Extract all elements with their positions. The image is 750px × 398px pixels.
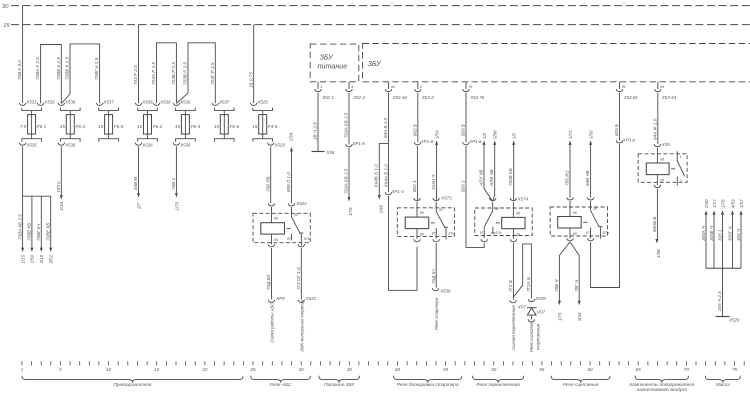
svg-text:40: 40 bbox=[395, 367, 401, 372]
svg-text:1/15: 1/15 bbox=[20, 254, 25, 263]
fuse F6-5 bbox=[96, 99, 123, 141]
svg-text:торможения: торможения bbox=[536, 323, 541, 350]
svg-text:75: 75 bbox=[732, 367, 738, 372]
svg-text:103Н Ч: 103Н Ч bbox=[431, 174, 436, 190]
wire relay K3 coil out split bbox=[554, 242, 582, 321]
svg-text:802 1: 802 1 bbox=[412, 180, 417, 192]
wire 1/2 to relay K2 contact bbox=[478, 132, 492, 201]
svg-text:70ЗГ Р 2,5: 70ЗГ Р 2,5 bbox=[210, 62, 215, 85]
svg-text:826 Б: 826 Б bbox=[614, 124, 619, 136]
svg-text:78Б Ч: 78Б Ч bbox=[554, 279, 559, 292]
svg-text:15: 15 bbox=[98, 124, 104, 129]
relay K4 air heater bbox=[638, 142, 687, 188]
svg-text:Предохранители: Предохранители bbox=[113, 382, 151, 387]
svg-text:5/19: 5/19 bbox=[39, 254, 44, 263]
svg-text:Х53-76: Х53-76 bbox=[469, 95, 485, 100]
relay K2 changeover bbox=[475, 198, 532, 242]
wire relay K5 coil out to XP5 bbox=[266, 248, 285, 343]
svg-text:20: 20 bbox=[201, 367, 208, 372]
svg-text:Х529: Х529 bbox=[257, 99, 269, 104]
svg-text:855 Л 1,0: 855 Л 1,0 bbox=[286, 172, 291, 192]
svg-text:Х55: Х55 bbox=[661, 142, 670, 147]
svg-text:70ВВ К 2,5: 70ВВ К 2,5 bbox=[65, 57, 70, 80]
svg-text:Х536: Х536 bbox=[141, 142, 153, 147]
connector X53-44 bbox=[385, 82, 407, 100]
svg-text:1/2: 1/2 bbox=[482, 132, 487, 139]
svg-text:1: 1 bbox=[21, 367, 24, 372]
svg-text:70Б ЛБ: 70Б ЛБ bbox=[265, 176, 270, 192]
svg-text:Х537: Х537 bbox=[102, 99, 114, 104]
svg-text:Масса: Масса bbox=[716, 382, 730, 387]
svg-text:Х58: Х58 bbox=[326, 150, 335, 155]
brace ZBU power bbox=[319, 376, 360, 387]
power rail 15 bbox=[3, 23, 750, 29]
svg-text:10: 10 bbox=[106, 367, 112, 372]
svg-text:1/76: 1/76 bbox=[348, 207, 353, 216]
svg-text:F4-6: F4-6 bbox=[268, 124, 278, 129]
svg-text:нагнетаемого воздуха: нагнетаемого воздуха bbox=[637, 387, 688, 392]
svg-text:30: 30 bbox=[294, 213, 298, 217]
svg-text:802 Б: 802 Б bbox=[412, 124, 417, 136]
svg-text:Реле стартера: Реле стартера bbox=[434, 297, 439, 330]
svg-text:ХР3-в: ХР3-в bbox=[622, 137, 636, 142]
svg-text:Х53-54: Х53-54 bbox=[661, 95, 677, 100]
svg-text:2: 2 bbox=[679, 179, 682, 183]
svg-text:ХР1-4: ХР1-4 bbox=[391, 189, 405, 194]
svg-text:706А КБ 2,5: 706А КБ 2,5 bbox=[344, 112, 349, 138]
svg-text:70ЗВ Р 2,5: 70ЗВ Р 2,5 bbox=[183, 62, 188, 85]
wire relay K5 contact to 1/34 bbox=[286, 132, 294, 203]
svg-text:Х52-1: Х52-1 bbox=[321, 95, 334, 100]
svg-text:1Б 0,75: 1Б 0,75 bbox=[248, 72, 253, 88]
svg-text:7Г2А Б: 7Г2А Б bbox=[526, 277, 531, 292]
svg-text:1/75: 1/75 bbox=[557, 312, 562, 321]
svg-text:Х536: Х536 bbox=[159, 99, 171, 104]
svg-text:44: 44 bbox=[391, 85, 395, 89]
ground bus X520 bbox=[701, 199, 744, 323]
svg-text:15: 15 bbox=[3, 23, 10, 29]
svg-text:Х536: Х536 bbox=[43, 99, 55, 104]
svg-text:7Г2 Б: 7Г2 Б bbox=[508, 280, 513, 292]
svg-text:2/7: 2/7 bbox=[136, 202, 141, 210]
svg-text:305Г Ч: 305Г Ч bbox=[728, 226, 733, 241]
wire X52-1 to X58 splice bbox=[312, 93, 335, 155]
wire relay K4 coil out bbox=[652, 189, 661, 258]
svg-text:ХР1-8: ХР1-8 bbox=[352, 141, 366, 146]
wire X53-54 to relay K4 bbox=[652, 93, 657, 144]
svg-text:785 Ж1: 785 Ж1 bbox=[565, 170, 570, 186]
svg-text:86: 86 bbox=[274, 217, 278, 221]
svg-text:5: 5 bbox=[59, 367, 62, 372]
svg-text:1/40: 1/40 bbox=[378, 204, 383, 213]
wire X53-2 to relay K1 coil bbox=[412, 93, 435, 201]
svg-text:60: 60 bbox=[588, 367, 594, 372]
svg-text:86: 86 bbox=[516, 211, 520, 215]
svg-text:35: 35 bbox=[347, 367, 353, 372]
brace changeover relay bbox=[473, 376, 524, 387]
svg-text:305 Ч 2,5: 305 Ч 2,5 bbox=[717, 291, 722, 311]
svg-text:3/52: 3/52 bbox=[49, 254, 54, 263]
fuse F6-6 bbox=[212, 99, 239, 141]
wire relay K5 contact out to X532 bbox=[296, 248, 317, 352]
svg-text:Х539: Х539 bbox=[534, 296, 546, 301]
svg-text:VD7: VD7 bbox=[537, 309, 546, 314]
brace clutch relay bbox=[551, 376, 610, 387]
ruler scale bbox=[21, 361, 745, 372]
svg-text:Сигнал переключения: Сигнал переключения bbox=[511, 305, 516, 350]
svg-text:1/50: 1/50 bbox=[30, 254, 35, 263]
jumper fuse F6-1 to F6-3 bbox=[35, 45, 61, 104]
svg-text:2/40: 2/40 bbox=[704, 199, 709, 209]
connector X53-2 bbox=[415, 82, 435, 100]
svg-text:15: 15 bbox=[252, 124, 258, 129]
svg-text:70ВА К 2,5: 70ВА К 2,5 bbox=[35, 57, 40, 80]
svg-text:70ВА КБ 2,5: 70ВА КБ 2,5 bbox=[17, 214, 22, 240]
svg-text:Х536: Х536 bbox=[179, 142, 191, 147]
brace air heater bbox=[630, 376, 695, 392]
svg-text:54: 54 bbox=[660, 85, 664, 89]
wire X52-4 to XP1-8 bbox=[344, 93, 366, 216]
svg-text:1/2: 1/2 bbox=[512, 132, 517, 139]
svg-text:1/50: 1/50 bbox=[588, 130, 593, 139]
svg-text:70ВБ КБ: 70ВБ КБ bbox=[27, 223, 32, 241]
unit ZBU power box bbox=[310, 44, 359, 82]
svg-text:Х529: Х529 bbox=[274, 142, 286, 147]
svg-text:30: 30 bbox=[439, 208, 443, 212]
wire 1/2 to relay K2 coil bbox=[508, 132, 529, 201]
svg-text:15: 15 bbox=[137, 124, 143, 129]
svg-text:85: 85 bbox=[660, 178, 664, 182]
wire rail15 to fuse F6-2 bbox=[133, 25, 138, 104]
svg-text:F6-5: F6-5 bbox=[114, 124, 124, 129]
svg-text:4/53: 4/53 bbox=[730, 199, 735, 208]
svg-text:Х522: Х522 bbox=[295, 201, 307, 206]
svg-text:70ВГ Кч: 70ВГ Кч bbox=[36, 223, 41, 241]
wire relay K2 coil out to XP7 bbox=[508, 243, 527, 350]
fuse F6-4 bbox=[173, 99, 200, 147]
svg-text:30: 30 bbox=[299, 367, 305, 372]
svg-text:85: 85 bbox=[516, 233, 520, 237]
svg-text:К64А Б 1,0: К64А Б 1,0 bbox=[383, 164, 388, 187]
wire 1/50 to relay K3 contact bbox=[585, 130, 593, 198]
svg-text:86: 86 bbox=[420, 211, 424, 215]
svg-text:15: 15 bbox=[60, 124, 66, 129]
svg-text:К64Б Б 1,0: К64Б Б 1,0 bbox=[374, 164, 379, 187]
svg-text:84В ЧБ: 84В ЧБ bbox=[585, 170, 590, 186]
svg-text:ЗБУ: ЗБУ bbox=[320, 53, 335, 62]
svg-text:Х532: Х532 bbox=[25, 99, 37, 104]
svg-text:7Г2 ОГ 1,0: 7Г2 ОГ 1,0 bbox=[296, 267, 301, 290]
svg-text:70В 1: 70В 1 bbox=[171, 178, 176, 190]
wire X53-44 branch bbox=[374, 93, 417, 291]
svg-text:826 1: 826 1 bbox=[461, 180, 466, 192]
svg-text:7,5: 7,5 bbox=[20, 124, 27, 129]
fuse F6-2 bbox=[135, 99, 171, 147]
svg-text:Х53-44: Х53-44 bbox=[392, 95, 408, 100]
svg-text:ХР7: ХР7 bbox=[517, 304, 527, 309]
jumper fuse F6-3 to F6-5 bbox=[62, 44, 100, 104]
svg-text:70: 70 bbox=[684, 367, 690, 372]
svg-text:305 1: 305 1 bbox=[718, 229, 723, 241]
svg-text:84Б М: 84Б М bbox=[133, 177, 138, 190]
unit ZBU box bbox=[363, 44, 750, 82]
svg-text:ЭМК моторного тормоза: ЭМК моторного тормоза bbox=[299, 299, 304, 352]
svg-text:Х53-2: Х53-2 bbox=[421, 95, 434, 100]
brace starter inhibit relay bbox=[394, 376, 462, 387]
relay K5 ABS bbox=[253, 201, 310, 247]
svg-text:Х532: Х532 bbox=[305, 296, 317, 301]
jumper fuse F6-4 to F6-6 bbox=[177, 43, 216, 104]
svg-text:ХР1-в: ХР1-в bbox=[468, 139, 482, 144]
svg-text:5/98: 5/98 bbox=[493, 130, 498, 139]
svg-text:84АБ Б: 84АБ Б bbox=[652, 217, 657, 232]
svg-text:Х536: Х536 bbox=[179, 99, 191, 104]
svg-text:85: 85 bbox=[573, 232, 577, 236]
svg-text:F6-4: F6-4 bbox=[191, 124, 201, 129]
svg-text:1: 1 bbox=[320, 85, 322, 89]
svg-text:1/75: 1/75 bbox=[174, 201, 179, 210]
svg-text:86: 86 bbox=[660, 157, 664, 161]
power rail 30 bbox=[2, 4, 750, 10]
svg-text:70ВЕ КБ: 70ВЕ КБ bbox=[46, 223, 51, 241]
svg-text:F6-2: F6-2 bbox=[153, 124, 163, 129]
svg-text:85: 85 bbox=[420, 233, 424, 237]
svg-text:ЗБУ: ЗБУ bbox=[368, 59, 383, 68]
svg-text:Х53-81: Х53-81 bbox=[623, 95, 639, 100]
brace fuses group bbox=[22, 376, 243, 387]
svg-text:15: 15 bbox=[214, 124, 220, 129]
svg-text:1/38: 1/38 bbox=[656, 249, 661, 258]
fuse F6-3 bbox=[58, 99, 85, 147]
svg-text:F6-6: F6-6 bbox=[230, 124, 240, 129]
connector X53-54 bbox=[655, 82, 677, 100]
svg-text:Х573: Х573 bbox=[440, 195, 452, 200]
svg-text:Питание ЗБУ: Питание ЗБУ bbox=[324, 382, 355, 387]
svg-text:1/71: 1/71 bbox=[568, 130, 573, 139]
svg-text:Реле АБС: Реле АБС bbox=[270, 382, 292, 387]
svg-text:87а: 87а bbox=[495, 231, 501, 235]
relay K1 starter inhibit bbox=[397, 198, 454, 242]
svg-text:70ЗБ Р 2,5: 70ЗБ Р 2,5 bbox=[171, 62, 176, 85]
svg-text:15: 15 bbox=[154, 367, 160, 372]
svg-text:1: 1 bbox=[680, 155, 682, 159]
wire 1/59 to relay K1 contact bbox=[431, 130, 452, 200]
diode VD7 bbox=[527, 308, 546, 352]
wire fuse F6-4 output bbox=[171, 146, 179, 210]
svg-text:Реле сигналов: Реле сигналов bbox=[529, 322, 534, 352]
wire X53-81 to relay K3 contact bbox=[591, 93, 636, 288]
svg-text:86: 86 bbox=[573, 211, 577, 215]
svg-text:826 Б: 826 Б bbox=[461, 124, 466, 136]
wire rail15 to fuse F4-6 bbox=[248, 25, 253, 104]
wire 5/98 to relay K2 contact bbox=[489, 130, 497, 201]
svg-text:84А Ж 1,0: 84А Ж 1,0 bbox=[652, 118, 657, 140]
svg-text:1/57: 1/57 bbox=[739, 199, 744, 208]
svg-text:85: 85 bbox=[274, 238, 278, 242]
svg-text:Реле переключения: Реле переключения bbox=[476, 382, 520, 387]
relay K3 clutch bbox=[550, 197, 609, 240]
brace ABS relay bbox=[251, 376, 311, 387]
svg-text:ПП 0: ПП 0 bbox=[56, 181, 61, 192]
svg-text:70ЗА Р 2,5: 70ЗА Р 2,5 bbox=[151, 62, 156, 85]
svg-text:70ВГ К 2,5: 70ВГ К 2,5 bbox=[94, 57, 99, 80]
svg-text:55: 55 bbox=[539, 367, 545, 372]
svg-text:305Е Ч: 305Е Ч bbox=[709, 225, 714, 241]
fuse F6-1 bbox=[19, 99, 55, 147]
svg-text:4: 4 bbox=[351, 85, 353, 89]
svg-text:25: 25 bbox=[249, 367, 256, 372]
svg-text:1/34: 1/34 bbox=[289, 132, 294, 141]
svg-text:F6-1: F6-1 bbox=[37, 124, 47, 129]
fuse F4-6 bbox=[250, 99, 285, 147]
svg-text:81: 81 bbox=[622, 85, 626, 89]
svg-text:Х536: Х536 bbox=[141, 99, 153, 104]
jumper fuse F6-2 to F6-4 bbox=[151, 43, 176, 103]
svg-text:Х52-4: Х52-4 bbox=[352, 95, 365, 100]
svg-text:Х520: Х520 bbox=[728, 318, 740, 323]
svg-text:Х536: Х536 bbox=[64, 142, 76, 147]
svg-text:Х535: Х535 bbox=[25, 142, 37, 147]
svg-text:Х537: Х537 bbox=[218, 99, 230, 104]
svg-text:1В Ч 2,5: 1В Ч 2,5 bbox=[313, 122, 318, 140]
svg-text:Х574: Х574 bbox=[517, 197, 529, 202]
svg-text:АЛБ ЧБ: АЛБ ЧБ bbox=[489, 169, 494, 187]
svg-text:65: 65 bbox=[636, 367, 642, 372]
svg-text:78Г Ч: 78Г Ч bbox=[574, 279, 579, 292]
brace ground bbox=[705, 376, 740, 387]
connector X52-1 bbox=[315, 82, 335, 100]
svg-text:70В К 4,0: 70В К 4,0 bbox=[17, 60, 22, 80]
wire 1/71 to relay K3 coil bbox=[565, 130, 573, 198]
svg-text:70ВБ К 2,5: 70ВБ К 2,5 bbox=[56, 57, 61, 80]
wire fuse F6-2 output bbox=[133, 146, 141, 210]
svg-text:1/76: 1/76 bbox=[720, 199, 725, 208]
svg-text:703 Р 2,5: 703 Р 2,5 bbox=[133, 65, 138, 85]
connector X53-76 bbox=[463, 82, 485, 100]
wire fuse F6-3 output bbox=[56, 146, 64, 210]
svg-text:1/34: 1/34 bbox=[59, 201, 64, 210]
svg-text:питание: питание bbox=[318, 62, 348, 71]
svg-text:30: 30 bbox=[2, 4, 9, 10]
svg-text:305 Ч: 305 Ч bbox=[736, 228, 741, 241]
svg-text:84А Б 1,0: 84А Б 1,0 bbox=[383, 117, 388, 138]
svg-text:87а: 87а bbox=[603, 231, 609, 235]
wire relay K1 contact out to X538 bbox=[431, 243, 451, 330]
wire fuse F4-6 to relay K5 bbox=[265, 146, 270, 203]
svg-text:Х536: Х536 bbox=[64, 99, 76, 104]
svg-text:305А Ч: 305А Ч bbox=[701, 225, 706, 241]
wire relay K2 branch to diode VD7 bbox=[514, 244, 546, 302]
svg-text:АЛУ ЧБ: АЛУ ЧБ bbox=[478, 169, 483, 187]
svg-text:70Д Кч: 70Д Кч bbox=[431, 269, 436, 284]
svg-text:Реле сцепления: Реле сцепления bbox=[563, 382, 599, 387]
svg-text:1/59: 1/59 bbox=[434, 130, 439, 139]
svg-text:30: 30 bbox=[495, 207, 499, 211]
connector X53-81 bbox=[616, 82, 638, 100]
svg-text:1/77: 1/77 bbox=[712, 199, 717, 208]
svg-text:ХР1-ж: ХР1-ж bbox=[420, 139, 435, 144]
svg-text:15: 15 bbox=[175, 124, 181, 129]
connector X52-4 bbox=[346, 82, 366, 100]
svg-text:5/44: 5/44 bbox=[577, 312, 582, 321]
svg-text:45: 45 bbox=[443, 367, 449, 372]
svg-text:30: 30 bbox=[593, 207, 597, 211]
svg-text:50: 50 bbox=[491, 367, 497, 372]
svg-text:87а: 87а bbox=[304, 237, 310, 241]
svg-text:706А КБ 2,5: 706А КБ 2,5 bbox=[344, 168, 349, 194]
svg-text:706В КБ: 706В КБ bbox=[508, 168, 513, 186]
svg-text:70Д Б3: 70Д Б3 bbox=[266, 274, 271, 290]
wire fuse F6-1 output split bbox=[17, 146, 53, 263]
svg-text:Реле блокировки стартера: Реле блокировки стартера bbox=[397, 382, 459, 387]
svg-text:ХР5: ХР5 bbox=[275, 296, 285, 301]
wire rail30 to fuse F6-1 bbox=[17, 6, 22, 104]
svg-text:Х538: Х538 bbox=[439, 289, 451, 294]
svg-text:Схема работы АБС: Схема работы АБС bbox=[270, 302, 275, 343]
svg-text:87а: 87а bbox=[449, 231, 455, 235]
svg-text:F6-3: F6-3 bbox=[76, 124, 86, 129]
wire X53-76 to relay K2 contact bbox=[461, 93, 485, 248]
